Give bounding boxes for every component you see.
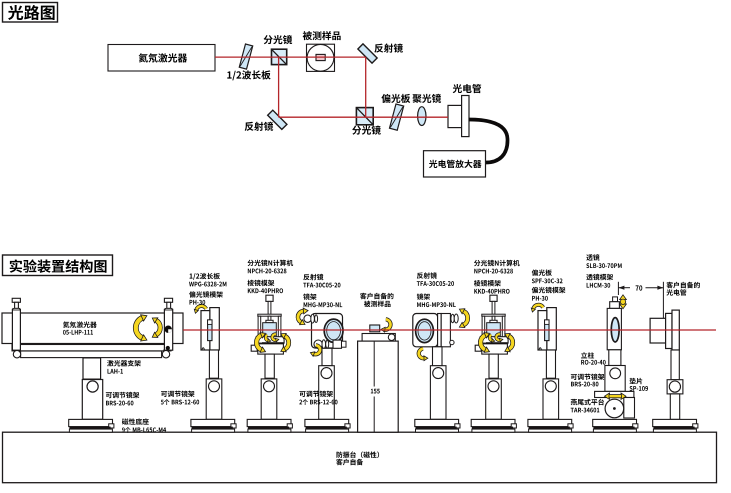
photocell post lower <box>670 394 679 420</box>
dimension leader right photocell <box>662 282 664 319</box>
mirror top-right 反射镜 <box>358 44 377 63</box>
label TFA-30C05-20 stand5 <box>417 281 454 286</box>
stand5 rotation arrow right <box>459 309 467 328</box>
label PH-30 stand7 <box>532 296 548 301</box>
label 棱镜模架 stand3 <box>247 280 274 286</box>
stand3 small hook top B <box>272 334 279 342</box>
stand6 mount block <box>486 379 502 419</box>
label 偏光镜模架 stand2 <box>189 291 223 297</box>
label SLB-30-70PM <box>586 263 621 268</box>
label 立柱 <box>581 352 594 358</box>
dovetail platform wheel <box>605 399 624 418</box>
title text 实验装置结构图 <box>10 259 107 273</box>
label 聚光镜 <box>412 94 441 103</box>
label SP-109 <box>630 386 649 391</box>
label 客户自备的 sample <box>360 293 393 300</box>
label 分光镜N计算机 stand3 <box>248 260 294 266</box>
title text 光路图 <box>8 5 55 20</box>
stand4 hook arrow bottom <box>310 345 320 356</box>
sample column body <box>358 341 399 432</box>
stand6 rotation arrow right <box>505 333 513 351</box>
laser rotation arrow small <box>152 318 160 338</box>
lens mid post RO-20-40 <box>609 350 621 366</box>
laser bracket left <box>12 309 20 350</box>
polarizer plate 偏光板 <box>390 104 404 130</box>
photocell post upper <box>671 350 679 380</box>
label 155 <box>371 389 380 394</box>
laser bracket dot <box>166 346 170 350</box>
label 磁性底座 <box>122 418 149 424</box>
laser box label <box>139 53 188 62</box>
label 镜架 stand4 <box>303 293 316 299</box>
stand4 rotation arrow top-left <box>298 308 308 325</box>
label 偏光板 <box>381 94 410 103</box>
stand7 magnetic base <box>528 419 573 432</box>
lens magnetic base <box>593 419 638 432</box>
label 5个 BRS-12-60 <box>161 399 199 405</box>
label 光电管放大器 <box>429 160 481 168</box>
label 反射镜 top-right <box>374 43 403 52</box>
condenser lens 聚光镜 <box>418 107 426 126</box>
label 反射镜 bottom-left <box>245 122 274 131</box>
sample column center line <box>373 341 375 386</box>
stand3 rotation arrow right <box>281 333 289 351</box>
horizontal adjust arrow <box>605 393 627 399</box>
dovetail platform top plate <box>595 391 634 397</box>
sample column top plate <box>362 334 395 342</box>
photocell plate inner <box>666 313 672 348</box>
stand3 rotation arrow left <box>257 333 266 353</box>
label MHG-MP30-NL stand5 <box>417 302 456 307</box>
amplifier box 光电管放大器 <box>424 151 486 177</box>
half-wave plate 1/2波长板 <box>239 44 252 69</box>
label 可调节镜架 lens <box>571 374 604 380</box>
laser bracket right <box>164 309 172 350</box>
label 反射镜 stand5 <box>417 272 437 278</box>
laser box 氦氖激光器 <box>108 45 215 72</box>
stand4 magnetic base <box>305 419 350 432</box>
label PH-30 stand2 <box>190 300 206 305</box>
label 被测样品 sample <box>364 301 391 307</box>
dimension tick left <box>617 282 619 295</box>
label 光电管 photocell <box>666 289 686 295</box>
stand6 small hook top B <box>496 334 503 342</box>
lens element SLB-30-70PM <box>611 318 619 342</box>
label 分光镜 top <box>264 35 293 44</box>
stand2 magnetic base <box>191 419 236 432</box>
dovetail platform body <box>624 398 635 419</box>
photocell mount block <box>667 380 683 394</box>
laser screw right <box>164 298 172 310</box>
stand5 post <box>433 347 443 366</box>
label SPF-30C-32 <box>532 278 563 283</box>
stand7 rotation arrow <box>531 305 543 312</box>
beamsplitter cube 2 分光镜 <box>356 108 373 125</box>
stand4 mount block <box>319 366 335 420</box>
beam wire laser to mirror TR <box>215 56 366 58</box>
laser foot right <box>162 349 169 358</box>
optical table 防振台 <box>3 432 717 483</box>
laser aperture ball <box>165 326 172 333</box>
stand6 magnetic base <box>471 419 516 432</box>
label 透镜 <box>586 254 599 261</box>
label NPCH-20-6328 stand3 <box>248 269 287 274</box>
laser support post LAH-1 <box>83 358 101 379</box>
sample rotation hook arrow <box>381 319 390 332</box>
mirror bottom-left 反射镜 <box>268 110 287 129</box>
label 激光器支架 <box>107 360 141 366</box>
stand3 magnetic base <box>247 419 292 432</box>
stand5 hook arrow bottom <box>419 349 428 361</box>
title box 实验装置结构图 <box>3 255 113 276</box>
stand6 rotation arrow left <box>481 333 490 353</box>
beam wire main experiment <box>183 329 716 331</box>
label MHG-MP30-NL stand4 <box>304 302 343 307</box>
cable from photocell to amplifier <box>469 120 508 163</box>
sample box 被测样品 <box>307 44 335 71</box>
stand2 rotation arrow <box>194 306 206 313</box>
beamsplitter cube 1 分光镜 <box>272 49 287 64</box>
label 透镜模架 <box>586 274 613 281</box>
stand2 waveplate holder PH-30 <box>201 308 219 379</box>
laser screw left <box>12 298 20 310</box>
stand6 beamsplitter holder KKD-40PHRO <box>475 295 508 378</box>
laser mount block BRS-20-60 <box>82 380 102 420</box>
dimension line 70 <box>618 286 663 290</box>
label NPCH-20-6328 stand6 <box>474 269 513 274</box>
label 1/2波长板 stand2 <box>190 273 220 280</box>
label BRS-20-80 <box>571 382 598 387</box>
laser body label 05-LHP-111 <box>63 330 93 335</box>
laser magnetic base <box>69 419 114 432</box>
label 分光镜N计算机 stand6 <box>474 260 520 266</box>
stand6 small hook top A <box>490 335 495 342</box>
label 1/2波长板 <box>227 70 270 80</box>
label TFA-30C05-20 stand4 <box>303 283 340 288</box>
stand5 mirror mount MHG-MP30-NL <box>413 314 458 347</box>
photocell plate outer <box>672 310 679 350</box>
stand7 polarizer holder PH-30 <box>538 308 556 379</box>
laser rotation arrow large <box>136 315 147 341</box>
label 客户自备 table <box>336 459 363 466</box>
lens vertical adjust arrow <box>620 295 627 309</box>
label 偏光镜模架 stand7 <box>532 287 566 293</box>
stand3 small hook top A <box>266 335 271 342</box>
photocell 光电管 <box>448 96 469 137</box>
label LHCM-30 <box>587 283 611 288</box>
label 可调节镜架 stand3 <box>299 391 332 397</box>
laser body label 氦氖激光器 <box>63 321 97 327</box>
label 被测样品 <box>303 31 341 40</box>
stand5 magnetic base <box>415 419 460 432</box>
label 分光镜 bottom <box>352 125 381 134</box>
label 70 <box>636 285 643 290</box>
label KKD-40PHRO stand3 <box>248 288 283 293</box>
label 9个 MB-L65C-M4 <box>122 427 166 433</box>
label 偏光板 stand7 <box>532 269 552 275</box>
label WPG-6328-2M <box>189 282 226 287</box>
beam wire mirror BL to photocell <box>279 116 448 118</box>
stand4 mirror mount MHG-MP30-NL <box>304 314 346 349</box>
stand5 mount block <box>430 366 446 420</box>
photocell magnetic base <box>653 419 698 432</box>
lens stand top knob <box>610 297 620 309</box>
label 垫片 <box>630 378 643 384</box>
label 棱镜模架 stand6 <box>474 280 501 286</box>
label RO-20-40 <box>581 360 605 365</box>
label 光电管 <box>453 84 481 93</box>
sample on column 被测样品 <box>370 325 380 332</box>
stand3 beamsplitter holder KKD-40PHRO <box>251 295 284 378</box>
stand4 post <box>322 348 332 365</box>
beam wire cube1 down to mirror BL <box>278 57 280 117</box>
label KKD-40PHRO stand6 <box>474 289 509 294</box>
label 客户自备的 photocell <box>666 282 699 289</box>
photocell box 客户自备的光电管 <box>650 318 666 343</box>
label 可调节镜架 laser <box>106 392 139 398</box>
beam wire mirror TR down to cube2 <box>365 57 367 117</box>
label BRS-20-60 <box>106 401 133 406</box>
label 反射镜 stand4 <box>303 274 323 280</box>
laser rail lower <box>21 351 162 358</box>
laser assembly body <box>2 313 183 344</box>
label TAR-34601 <box>571 408 600 413</box>
stand3 mount block <box>261 379 277 419</box>
stand7 mount block <box>543 379 559 419</box>
label 镜架 stand5 <box>417 293 430 299</box>
laser rail upper <box>12 345 171 351</box>
lens mount block BRS-20-80 <box>605 366 625 392</box>
lens frame LHCM-30 <box>607 308 621 349</box>
title box 光路图 <box>3 3 58 23</box>
laser foot left <box>13 349 20 358</box>
label 可调节镜架 stand2 <box>161 391 194 397</box>
label LAH-1 <box>108 369 123 374</box>
label 防振台（磁性） <box>336 451 379 458</box>
label 2个 BRS-12-60 <box>299 399 337 405</box>
label 燕尾式平台 <box>571 399 604 406</box>
stand2 mount block <box>206 379 222 419</box>
sample column knob circle <box>388 334 395 341</box>
